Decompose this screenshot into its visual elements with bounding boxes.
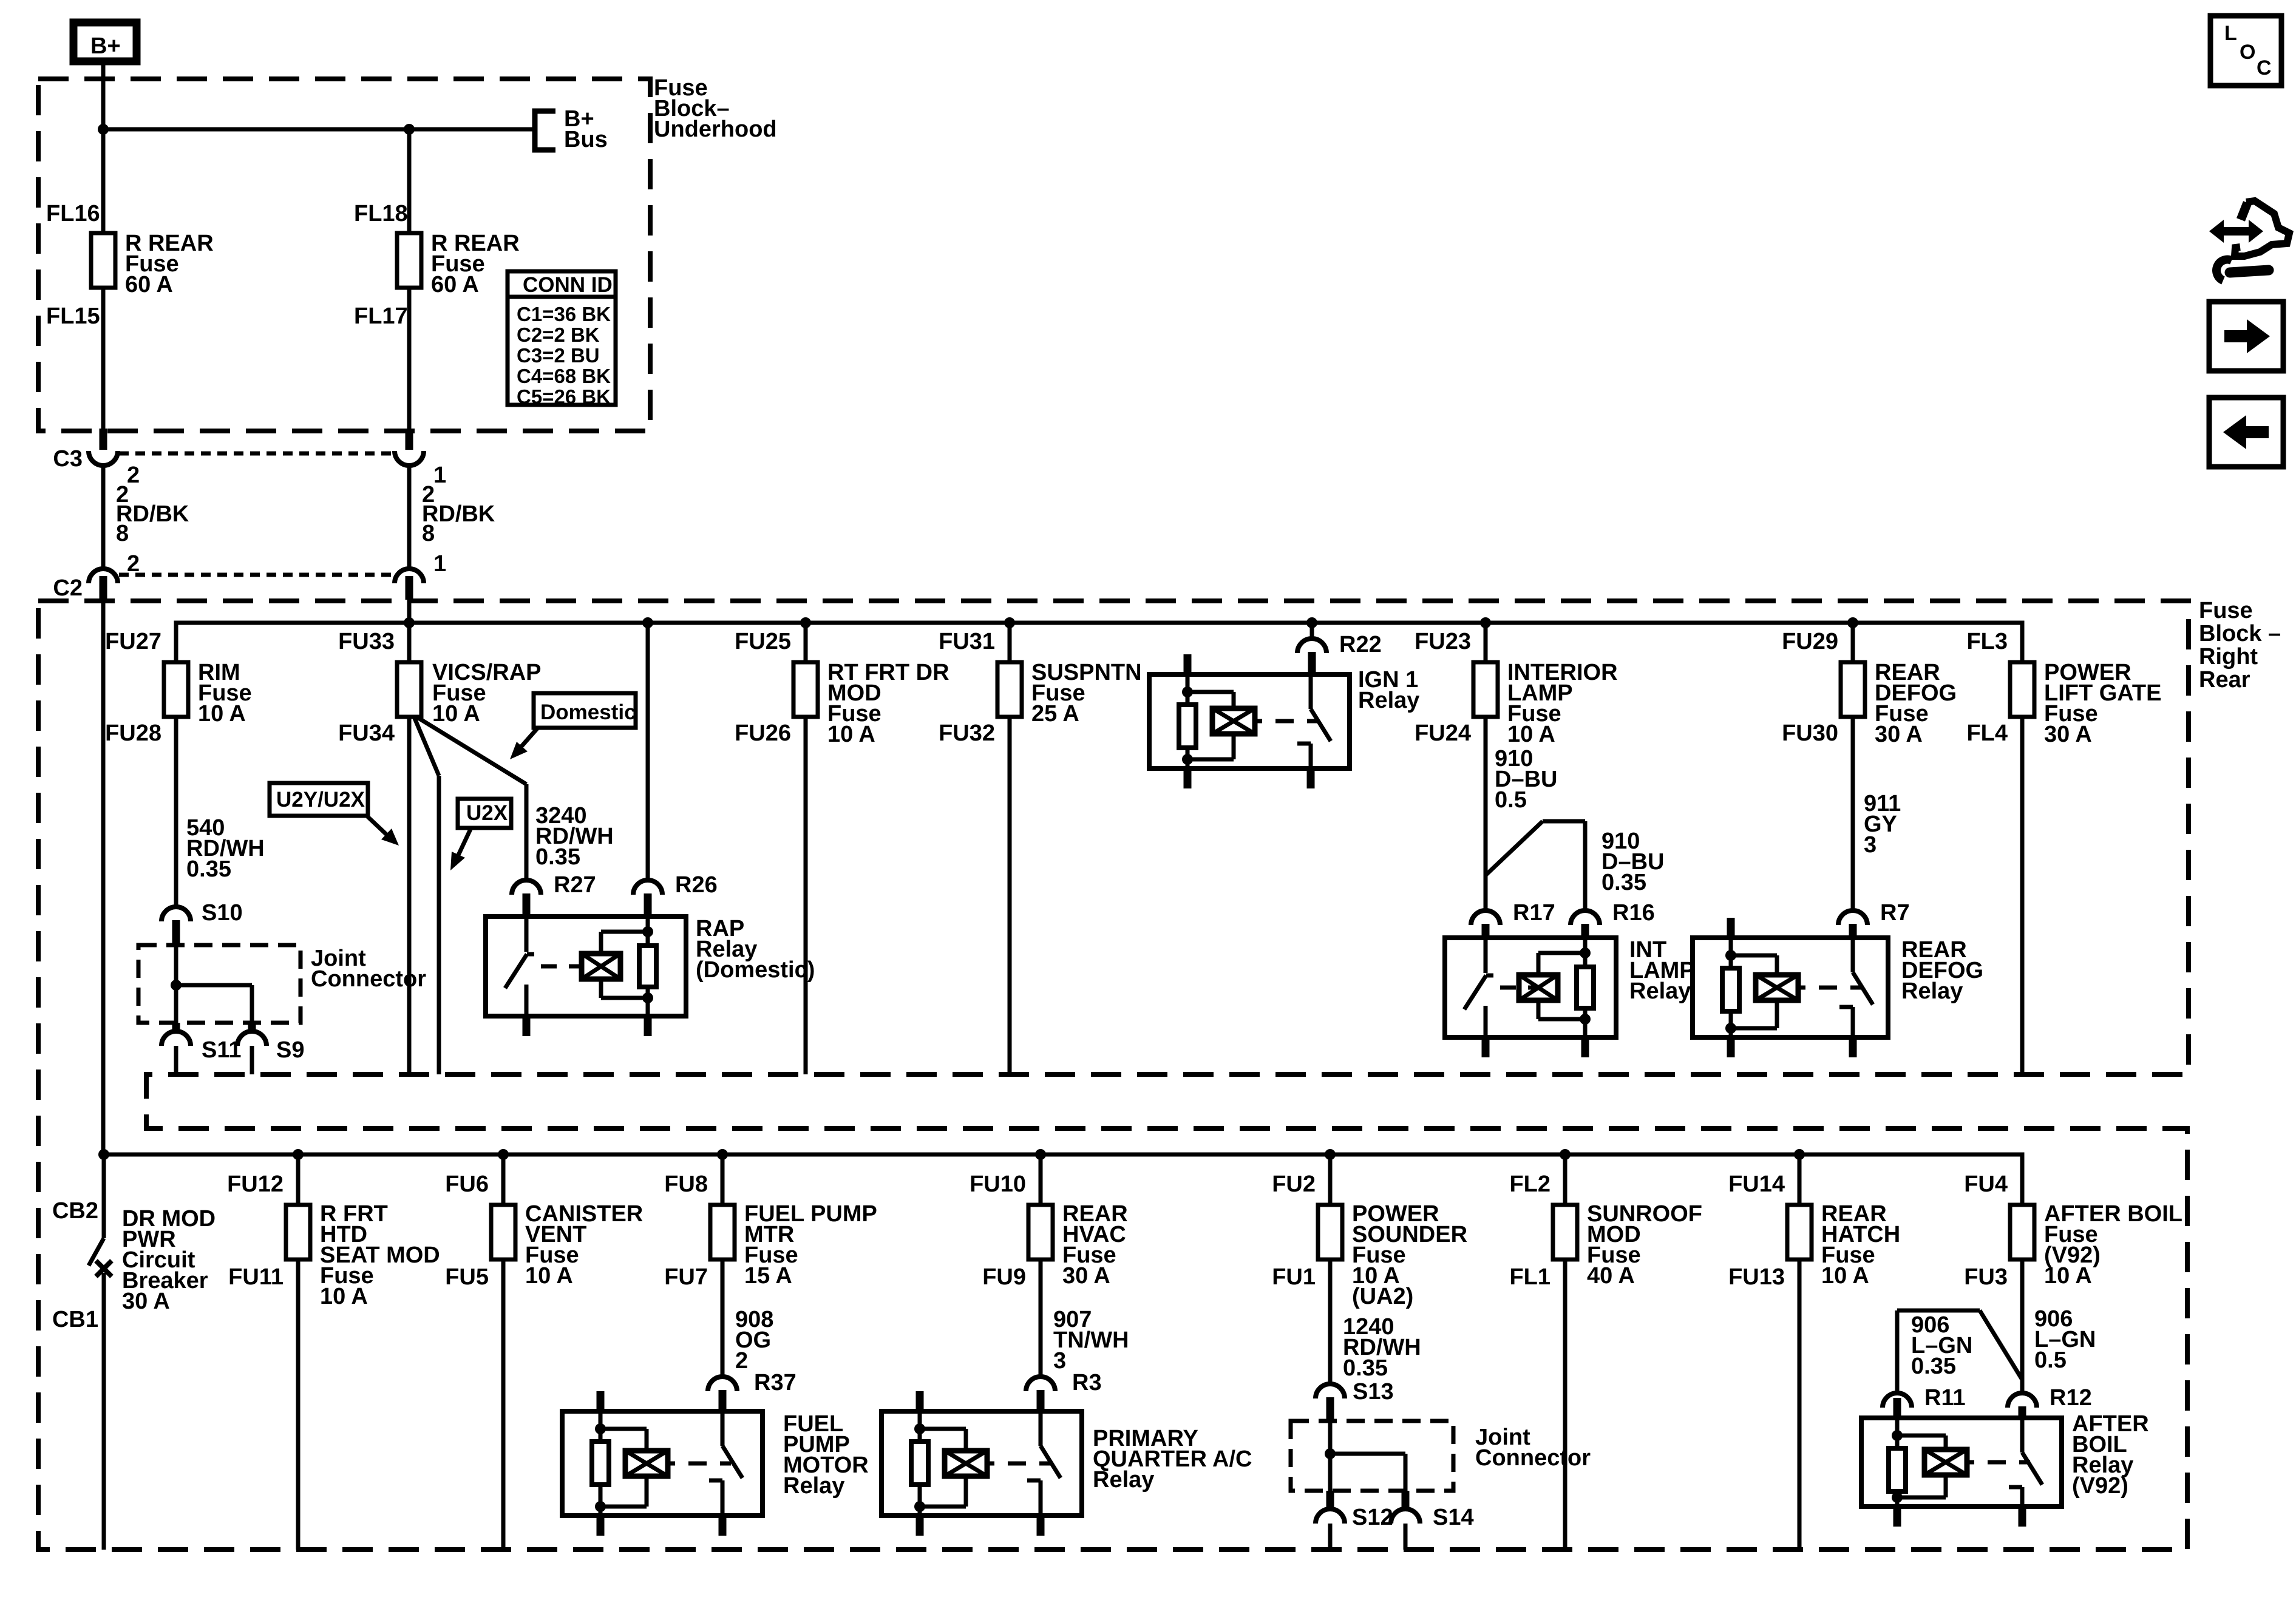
LOC reference box [2210, 16, 2281, 86]
svg-text:FU7: FU7 [664, 1264, 708, 1290]
relay PRIMARY QUARTER A/C [881, 1411, 1082, 1516]
svg-text:2: 2 [127, 463, 140, 488]
svg-text:FU8: FU8 [664, 1171, 708, 1197]
relay IGN 1 [1149, 674, 1350, 768]
svg-text:(V92): (V92) [2072, 1473, 2128, 1499]
connector C2 left pin 2 [89, 569, 118, 583]
svg-text:R16: R16 [1612, 900, 1655, 926]
svg-text:FU4: FU4 [1964, 1171, 2008, 1197]
fuse FU31/FU32 SUSPNTN 25 A [997, 662, 1022, 717]
svg-text:R11: R11 [1924, 1385, 1966, 1411]
svg-text:Domestic: Domestic [540, 700, 636, 724]
wire 908 OG 2 [721, 1259, 725, 1378]
svg-text:3: 3 [1864, 832, 1877, 858]
fuse FU14/FU13 REAR [1787, 1205, 1812, 1259]
svg-text:FU25: FU25 [735, 629, 791, 654]
wire bus tap to FU8 [721, 1154, 725, 1205]
svg-text:S14: S14 [1433, 1505, 1474, 1530]
svg-text:FU33: FU33 [338, 629, 395, 654]
middle bus wire [176, 623, 2022, 662]
svg-text:L: L [2224, 22, 2237, 45]
wire bus tap to FU6 [501, 1154, 506, 1205]
Fuse Block - Right Rear dashed outline [38, 601, 2189, 1550]
wire FU32 down [1008, 717, 1012, 1074]
svg-text:R37: R37 [754, 1370, 796, 1395]
wire 907 TN/WH 3 [1039, 1259, 1043, 1378]
svg-text:FL15: FL15 [46, 303, 100, 329]
svg-text:FU28: FU28 [105, 720, 161, 746]
bottom bus wire [104, 1154, 2022, 1205]
wire inside joint connector [174, 945, 178, 985]
wire FU34 branch to RAP relay (Domestic) [416, 717, 526, 784]
svg-text:R3: R3 [1072, 1370, 1102, 1395]
wire bus tap to FU14 [1798, 1154, 1802, 1205]
node junction on middle bus [404, 617, 415, 628]
splice S10 [161, 907, 191, 921]
svg-text:Connector: Connector [1475, 1445, 1591, 1471]
wire bus tap to FL2 [1563, 1154, 1567, 1205]
wire 910 D-BU 0.5 [1484, 717, 1488, 912]
svg-text:(UA2): (UA2) [1352, 1284, 1413, 1309]
wire 911 GY 3 [1851, 717, 1855, 912]
fuse FU6/FU5 CANISTER [491, 1205, 515, 1259]
fuse FL3/FL4 POWER LIFT GATE 30 A [2010, 662, 2034, 717]
svg-text:S12: S12 [1352, 1505, 1393, 1530]
svg-text:CB2: CB2 [52, 1198, 98, 1224]
svg-text:FU9: FU9 [982, 1264, 1026, 1290]
svg-text:40 A: 40 A [1587, 1263, 1635, 1289]
svg-text:15 A: 15 A [744, 1263, 792, 1289]
svg-text:10 A: 10 A [198, 701, 246, 727]
svg-text:0.35: 0.35 [186, 856, 231, 882]
wire FU34 branch U2X [414, 717, 439, 776]
wire FL15 down [101, 288, 106, 430]
fuse FU29/FU30 REAR DEFOG 30 A [1841, 662, 1865, 717]
wire B+ to bus [101, 61, 106, 129]
svg-text:FL4: FL4 [1966, 720, 2008, 746]
svg-text:R22: R22 [1339, 632, 1382, 657]
svg-text:R17: R17 [1513, 900, 1555, 926]
svg-text:10 A: 10 A [2044, 1263, 2092, 1289]
wire FL17 down [407, 288, 412, 430]
svg-text:30 A: 30 A [1875, 722, 1923, 747]
wire bus tap to FU23 [1484, 623, 1488, 662]
fuse FU12/FU11 R FRT [286, 1205, 310, 1259]
svg-text:FU5: FU5 [445, 1264, 489, 1290]
svg-text:FU13: FU13 [1728, 1264, 1785, 1290]
fuse FU25/FU26 RT FRT DR MOD 10 A [793, 662, 818, 717]
flag U2X [458, 799, 511, 828]
svg-text:Rear: Rear [2199, 667, 2250, 693]
connector R12 [2008, 1393, 2037, 1408]
node junction on bottom bus [1560, 1149, 1571, 1160]
svg-text:25 A: 25 A [1031, 701, 1079, 727]
node junction FL16 tap [98, 124, 109, 135]
svg-text:FL1: FL1 [1509, 1264, 1550, 1290]
svg-text:60 A: 60 A [125, 272, 173, 297]
svg-text:CONN ID: CONN ID [523, 273, 613, 297]
svg-text:C5=26 BK: C5=26 BK [517, 385, 611, 408]
svg-text:FU31: FU31 [939, 629, 995, 654]
svg-text:FL17: FL17 [354, 303, 408, 329]
wire FL4 down [2020, 717, 2025, 1074]
flag Domestic [534, 693, 636, 728]
svg-text:B+: B+ [90, 33, 121, 59]
svg-text:10 A: 10 A [525, 1263, 573, 1289]
node junction on bottom bus [498, 1149, 509, 1160]
svg-text:FL16: FL16 [46, 201, 100, 226]
svg-text:0.5: 0.5 [1495, 787, 1527, 813]
svg-text:FU2: FU2 [1272, 1171, 1316, 1197]
wire bus tap to FU33 [407, 623, 412, 662]
svg-text:30 A: 30 A [122, 1289, 170, 1314]
svg-text:C2: C2 [53, 575, 83, 601]
svg-text:C4=68 BK: C4=68 BK [517, 365, 611, 387]
svg-text:10 A: 10 A [320, 1284, 368, 1309]
relay AFTER BOIL (V92) [1861, 1418, 2062, 1507]
wire bus tap to FU2 [1328, 1154, 1333, 1205]
node junction on bottom bus [1794, 1149, 1805, 1160]
connector R26 [633, 880, 662, 895]
splice S13 [1316, 1384, 1345, 1398]
fuse FU4/FU3 AFTER BOIL [2010, 1205, 2034, 1259]
svg-text:Relay: Relay [1629, 978, 1691, 1004]
wire bus tap to FU31 [1008, 623, 1012, 662]
wire bus tap to FU10 [1039, 1154, 1043, 1205]
connector C3 dotted body [119, 452, 393, 456]
node junction on bottom bus [98, 1149, 109, 1160]
wire C2 right pin into box [407, 600, 412, 623]
svg-text:3: 3 [1053, 1348, 1066, 1374]
wire C2 down the left side to bottom bus [101, 600, 106, 1154]
svg-text:10 A: 10 A [1507, 722, 1555, 747]
svg-text:0.5: 0.5 [2034, 1347, 2067, 1373]
fuse FL16/FL15 R REAR 60 A [91, 233, 115, 288]
power feed B+ terminal [73, 22, 137, 61]
B+ bus wire [103, 127, 534, 132]
wire bus to R26 [646, 623, 650, 881]
wire 540 RD/WH 0.35 [174, 717, 178, 908]
svg-text:FU23: FU23 [1415, 629, 1471, 654]
connector C3 right pin 1 [406, 429, 413, 450]
svg-text:30 A: 30 A [1062, 1263, 1110, 1289]
wire FU34 main branch U2Y/U2X [407, 717, 412, 1074]
svg-text:FU1: FU1 [1272, 1264, 1316, 1290]
connector C2 right pin 1 [395, 569, 424, 583]
wire bus tap to FU25 [804, 623, 808, 662]
svg-text:C3: C3 [53, 446, 83, 472]
svg-text:FU11: FU11 [228, 1264, 284, 1290]
svg-text:FU27: FU27 [105, 629, 161, 654]
svg-text:1: 1 [433, 551, 446, 577]
svg-text:C3=2 BU: C3=2 BU [517, 344, 600, 367]
svg-text:O: O [2240, 41, 2255, 64]
node junction on bottom bus [1325, 1149, 1336, 1160]
svg-text:FL3: FL3 [1966, 629, 2008, 654]
fuse FU8/FU7 FUEL PUMP [710, 1205, 735, 1259]
node junction on middle bus [642, 617, 653, 628]
svg-text:Relay: Relay [1901, 978, 1963, 1004]
connector R11 [1883, 1393, 1912, 1408]
next-page arrow icon [2209, 302, 2283, 371]
wire FU5 down [501, 1259, 506, 1550]
svg-text:0.35: 0.35 [1343, 1355, 1388, 1381]
svg-text:Relay: Relay [783, 1473, 844, 1499]
svg-text:U2X: U2X [466, 801, 508, 825]
svg-text:FU10: FU10 [970, 1171, 1026, 1197]
joint connector dashed box right [1291, 1421, 1453, 1491]
svg-text:FU29: FU29 [1782, 629, 1838, 654]
svg-text:U2Y/U2X: U2Y/U2X [276, 788, 365, 812]
node junction on bottom bus [293, 1149, 304, 1160]
svg-text:R12: R12 [2050, 1385, 2092, 1411]
svg-text:S9: S9 [276, 1037, 304, 1063]
fuse FL2/FL1 SUNROOF [1553, 1205, 1577, 1259]
svg-text:S10: S10 [202, 900, 243, 926]
relay RAP (Domestic) [486, 917, 686, 1016]
circuit breaker CB2/CB1 DR MOD PWR 30 A [102, 1154, 106, 1238]
wire FU13 down [1798, 1259, 1802, 1550]
node junction on middle bus [1306, 617, 1317, 628]
svg-text:Right: Right [2199, 644, 2258, 670]
wire bus to FL18 [407, 129, 412, 233]
wire FU11 down [296, 1259, 301, 1550]
fuse FU27/FU28 RIM 10 A [164, 662, 188, 717]
svg-text:8: 8 [422, 521, 435, 546]
node junction on middle bus [1847, 617, 1858, 628]
svg-text:Relay: Relay [1093, 1467, 1154, 1493]
svg-text:0.35: 0.35 [1911, 1354, 1956, 1379]
node junction FL18 tap [404, 124, 415, 135]
svg-text:FU6: FU6 [445, 1171, 489, 1197]
wire branch 906 L-GN 0.35 to R11 [1895, 1310, 1900, 1394]
wire bus tap to FU12 [296, 1154, 301, 1205]
svg-text:30 A: 30 A [2044, 722, 2092, 747]
svg-text:Bus: Bus [564, 127, 608, 152]
connector R16 [1571, 910, 1600, 925]
svg-text:1: 1 [433, 463, 446, 488]
splice S11 [172, 1023, 180, 1031]
wire 906 L-GN 0.5 to R12 [2020, 1259, 2025, 1394]
svg-text:FU32: FU32 [939, 720, 995, 746]
svg-text:FL2: FL2 [1509, 1171, 1550, 1197]
node junction on bottom bus [717, 1149, 728, 1160]
wire bus to FL16 [101, 129, 106, 233]
svg-text:S11: S11 [202, 1037, 242, 1063]
svg-text:Relay: Relay [1358, 688, 1419, 713]
wire bus tap to FU4 [2020, 1154, 2025, 1205]
svg-text:FU24: FU24 [1415, 720, 1471, 746]
svg-text:FU3: FU3 [1964, 1264, 2008, 1290]
svg-text:R7: R7 [1880, 900, 1910, 926]
svg-text:C1=36 BK: C1=36 BK [517, 303, 611, 325]
connector R27 [512, 880, 541, 895]
svg-text:10 A: 10 A [432, 701, 480, 727]
Fuse Block-Underhood dashed box [38, 79, 650, 431]
splice S12 [1326, 1491, 1334, 1509]
node junction on middle bus [1480, 617, 1491, 628]
svg-text:FU34: FU34 [338, 720, 395, 746]
fuse FU2/FU1 POWER [1318, 1205, 1342, 1259]
wire 2 RD/BK 8 left [101, 466, 106, 569]
svg-text:8: 8 [116, 521, 129, 546]
svg-text:C: C [2257, 56, 2272, 80]
svg-text:FU12: FU12 [227, 1171, 284, 1197]
svg-text:R26: R26 [675, 872, 718, 898]
wire bus tap to FU29 [1851, 623, 1855, 662]
node junction on middle bus [1004, 617, 1015, 628]
wire FU26 down [804, 717, 808, 1074]
connector R37 [708, 1377, 737, 1391]
relay REAR DEFOG [1693, 938, 1888, 1037]
connector R7 [1838, 910, 1867, 925]
svg-text:Fuse: Fuse [2199, 598, 2253, 623]
wire 2 RD/BK 8 right [407, 466, 412, 569]
joint connector dashed box left [138, 945, 301, 1023]
wire branch 910 D-BU 0.35 to R16 [1486, 821, 1543, 875]
connector R17 [1471, 910, 1500, 925]
svg-text:(Domestic): (Domestic) [696, 957, 815, 983]
splice S14 [1402, 1491, 1410, 1509]
connector C2 dotted body [119, 573, 393, 577]
relay FUEL PUMP MOTOR [562, 1411, 763, 1516]
fuse FU23/FU24 INTERIOR LAMP 10 A [1473, 662, 1498, 717]
previous-page arrow icon [2209, 398, 2283, 467]
svg-text:R27: R27 [554, 872, 596, 898]
svg-text:FU30: FU30 [1782, 720, 1838, 746]
wire 1240 RD/WH 0.35 [1328, 1259, 1333, 1385]
connector R3 [1026, 1377, 1055, 1391]
connector C3 left pin 2 [100, 429, 107, 450]
svg-text:CB1: CB1 [52, 1307, 98, 1332]
wire FL1 down [1563, 1259, 1567, 1550]
svg-text:2: 2 [735, 1348, 748, 1374]
svg-text:0.35: 0.35 [535, 844, 580, 870]
svg-text:FU14: FU14 [1728, 1171, 1785, 1197]
connector R22 [1310, 623, 1314, 641]
svg-text:C2=2 BK: C2=2 BK [517, 324, 600, 346]
svg-text:FL18: FL18 [354, 201, 408, 226]
flag U2Y/U2X [270, 783, 368, 816]
B+ Bus terminal [535, 111, 555, 150]
fuse FL18/FL17 R REAR 60 A [397, 233, 421, 288]
relay INT LAMP [1445, 938, 1616, 1037]
svg-text:10 A: 10 A [827, 722, 875, 747]
svg-text:Block –: Block – [2199, 621, 2281, 646]
svg-text:Underhood: Underhood [654, 117, 777, 142]
svg-text:10 A: 10 A [1821, 1263, 1869, 1289]
svg-text:60 A: 60 A [431, 272, 479, 297]
body repair icon with double arrow and wrench [2209, 220, 2263, 243]
CONN ID table [508, 271, 616, 405]
fuse FU33/FU34 VICS/RAP 10 A [397, 662, 421, 717]
svg-text:S13: S13 [1353, 1379, 1394, 1405]
splice S9 [248, 1023, 256, 1031]
node junction on middle bus [800, 617, 811, 628]
node junction on bottom bus [1035, 1149, 1046, 1160]
svg-text:FU26: FU26 [735, 720, 791, 746]
fuse FU10/FU9 REAR [1028, 1205, 1053, 1259]
wire inside joint connector right [1328, 1421, 1333, 1454]
svg-text:0.35: 0.35 [1601, 870, 1646, 895]
